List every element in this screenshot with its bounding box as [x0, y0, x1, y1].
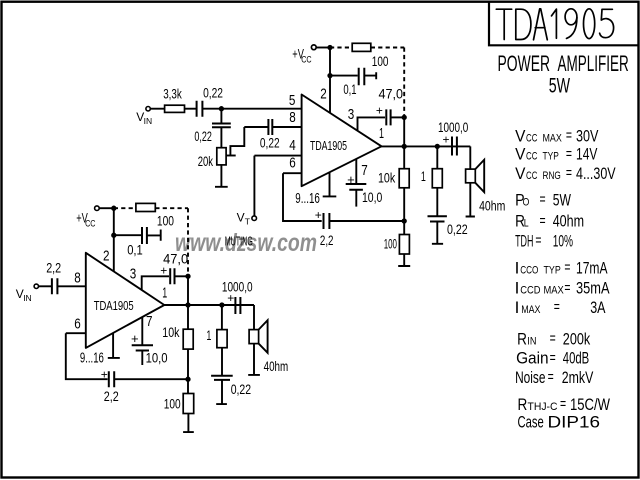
svg-text:+: + [443, 133, 450, 147]
wire 10k to 100 [403, 188, 405, 235]
svg-text:L: L [524, 218, 529, 230]
svg-text:2: 2 [103, 247, 110, 264]
capacitor 0,1 (upper) [359, 68, 365, 86]
svg-text:1: 1 [162, 285, 167, 302]
wire output to 1ohm (lower) [221, 305, 223, 330]
capacitor 2,2 feedback (lower) [109, 371, 114, 387]
svg-text:100: 100 [384, 237, 397, 252]
ground pins 9...16 (upper) [323, 172, 337, 196]
svg-text:THJ-C: THJ-C [528, 401, 558, 413]
spec Vcc TYP = 14V [515, 145, 598, 164]
svg-text:MAX: MAX [521, 304, 541, 316]
svg-text:=: = [564, 259, 570, 276]
svg-text:3A: 3A [590, 298, 606, 317]
capacitor 0,22 shunt (upper) [212, 124, 231, 128]
svg-text:=: = [566, 127, 572, 144]
svg-text:AMPLIFIER: AMPLIFIER [558, 51, 629, 76]
potentiometer 20k [217, 148, 226, 165]
wire node down to output [403, 117, 405, 146]
capacitor 10,0 (lower) [132, 345, 153, 350]
wire 3,3k to C 0,22 [185, 108, 197, 110]
svg-text:2,2: 2,2 [46, 261, 61, 276]
svg-text:+: + [160, 263, 167, 277]
svg-text:CC: CC [526, 132, 537, 144]
wire speaker ground (lower) [248, 344, 260, 375]
node 0,1 tap (lower) [112, 234, 115, 237]
svg-text:0,1: 0,1 [127, 242, 143, 257]
svg-text:40hm: 40hm [479, 198, 505, 213]
svg-text:0,22: 0,22 [260, 136, 280, 151]
svg-text:MUTING: MUTING [225, 233, 253, 248]
node output/1ohm (upper) [436, 145, 439, 148]
ground pins 9...16 (lower) [108, 333, 120, 358]
wire 10,0 end [355, 190, 357, 207]
capacitor 1000,0 output (lower) [235, 297, 240, 314]
svg-text:2: 2 [320, 85, 327, 102]
capacitor 47,0 (upper) [386, 109, 390, 125]
resistor 100 Vcc (upper) [352, 43, 371, 51]
wire to 0,1 cap (lower) [114, 234, 142, 236]
svg-text:6: 6 [74, 316, 81, 333]
svg-text:V: V [515, 145, 526, 164]
capacitor 47,0 (lower) [170, 268, 174, 284]
spec Imax = 3A [515, 298, 606, 317]
wire to 0,22 pin8 cap [244, 126, 268, 128]
wire output pin 1 (lower) [164, 304, 254, 306]
wire Vin to 2,2 [39, 285, 52, 287]
subtitle POWER AMPLIFIER 5W [498, 51, 629, 97]
spec Vcc RNG = 4...30V [515, 164, 616, 183]
svg-text:4...30V: 4...30V [576, 164, 616, 183]
svg-text:I: I [515, 258, 520, 277]
svg-text:0,22: 0,22 [231, 382, 251, 397]
svg-text:2,2: 2,2 [104, 389, 119, 404]
spec Noise = 2mkV [515, 368, 594, 387]
svg-text:6: 6 [289, 155, 296, 172]
svg-text:7: 7 [361, 162, 368, 179]
svg-text:10k: 10k [162, 325, 179, 340]
ground under 100 (lower) [183, 414, 194, 433]
svg-text:10,0: 10,0 [362, 190, 382, 205]
wire feedback cap to node (lower) [114, 378, 188, 380]
capacitor 10,0 (upper) [346, 184, 367, 190]
svg-text:9...16: 9...16 [80, 350, 104, 366]
svg-text:IN: IN [527, 335, 536, 347]
wire output to 10k [403, 146, 405, 168]
svg-text:47,0: 47,0 [379, 87, 404, 102]
node feedback/divider (upper) [403, 219, 406, 222]
capacitor 0,22 zobel (lower) [211, 376, 233, 380]
ground under 100 (upper) [398, 254, 410, 266]
wire pin 3 (lower) [142, 276, 169, 290]
svg-text:Case: Case [518, 413, 544, 432]
wire Vcc terminal to node (upper) [316, 47, 330, 49]
svg-text:+: + [101, 368, 108, 382]
ground under pot [215, 165, 228, 187]
svg-text:100: 100 [164, 397, 181, 412]
spec Gain = 40dB [516, 349, 589, 368]
wire Vin terminal (upper) [146, 107, 150, 111]
op-amp U1 TDA1905 (upper) [302, 95, 382, 187]
spec Case DIP16 [518, 413, 601, 432]
wire pin 2 (lower) [113, 208, 115, 271]
spec Iccd MAX = 35mA [515, 279, 610, 298]
svg-text:DIP16: DIP16 [548, 413, 601, 432]
node Vcc (lower) [112, 207, 115, 210]
wire cap to pot [220, 127, 222, 147]
spec Icco TYP = 17mA [515, 258, 608, 277]
wire Vcc terminal to node [99, 207, 114, 209]
svg-text:200k: 200k [563, 329, 591, 348]
node 47,0/dashed (upper) [403, 116, 406, 119]
title box [489, 3, 638, 46]
svg-text:40hm: 40hm [553, 212, 584, 231]
wire feedback cap to node [329, 220, 404, 222]
svg-text:=: = [566, 165, 572, 182]
terminal Vin (lower) [34, 284, 38, 288]
svg-text:+: + [376, 104, 383, 118]
node 47,0/dashed (lower) [186, 275, 189, 278]
svg-text:TDH: TDH [515, 232, 533, 251]
wire 0,22 end (lower) [216, 380, 227, 404]
node Vcc (upper) [328, 46, 331, 49]
resistor 100 Vcc (lower) [136, 203, 155, 211]
capacitor 0,1 (lower) [142, 227, 147, 244]
svg-text:V: V [515, 164, 526, 183]
svg-text:5W: 5W [549, 75, 570, 98]
resistor 1 (upper) [432, 169, 442, 188]
capacitor 2,2 input (lower) [52, 278, 58, 294]
wire pin 7 (lower) [141, 317, 143, 345]
svg-text:14V: 14V [576, 145, 598, 164]
resistor 100 divider (lower) [183, 394, 194, 414]
wire C to pin 5 [202, 108, 301, 110]
capacitor 1000,0 output (upper) [452, 137, 457, 156]
svg-text:V: V [515, 126, 526, 145]
wire 0,1 right lead (lower) [147, 230, 161, 241]
wire 1ohm to 0,22 (lower) [221, 348, 223, 376]
svg-text:10k: 10k [378, 171, 395, 186]
wire output to 10k (lower) [187, 305, 189, 329]
capacitor 0,22 to pin 8 [268, 119, 272, 135]
wire cap to pin 8 [272, 126, 301, 128]
wire pin6 down to feedback (lower) [66, 333, 108, 379]
svg-text:IN: IN [144, 116, 153, 126]
svg-text:Gain: Gain [516, 349, 549, 368]
svg-text:TDA1905: TDA1905 [310, 138, 347, 153]
svg-text:1: 1 [421, 168, 426, 184]
svg-text:=: = [550, 330, 556, 347]
svg-text:20k: 20k [198, 154, 213, 169]
resistor 10k (lower) [183, 329, 193, 349]
svg-text:IN: IN [23, 293, 32, 303]
svg-text:O: O [523, 196, 530, 208]
svg-text:+: + [131, 331, 139, 346]
wire node down to output (lower) [187, 276, 189, 305]
dashed wire 100 to corner and down (lower) [155, 208, 188, 276]
svg-text:R: R [518, 395, 528, 414]
wire 0,1 right lead [364, 72, 376, 79]
wire junction down [220, 109, 222, 123]
wire cap to speaker [469, 146, 471, 169]
svg-text:I: I [515, 279, 520, 298]
wire 1ohm to 0,22 [436, 188, 438, 217]
capacitor 0,22 zobel (upper) [428, 216, 447, 221]
svg-text:CCO: CCO [520, 264, 539, 276]
wire output to 1ohm [436, 146, 438, 168]
svg-text:V: V [237, 211, 245, 225]
wire cap to speaker (lower) [253, 305, 255, 330]
svg-text:3: 3 [348, 106, 355, 123]
svg-text:4: 4 [289, 137, 296, 154]
svg-text:0,1: 0,1 [343, 82, 356, 97]
svg-text:3: 3 [130, 266, 137, 283]
svg-text:CCD: CCD [520, 285, 540, 297]
wire 47,0 to node (lower) [175, 275, 189, 277]
svg-text:R: R [517, 329, 527, 348]
svg-text:100: 100 [157, 214, 174, 229]
input terminal Vin (upper) [311, 45, 316, 50]
svg-text:RNG: RNG [543, 170, 561, 182]
svg-text:=: = [566, 145, 572, 162]
wire 0,22 end (upper) [432, 222, 443, 244]
svg-text:1: 1 [206, 327, 211, 343]
svg-text:TDA1905: TDA1905 [94, 298, 134, 313]
wire 10,0 end (lower) [141, 351, 143, 366]
dashed wire 100 to corner and down [371, 48, 404, 118]
svg-text:CC: CC [526, 170, 537, 182]
svg-text:1: 1 [379, 125, 384, 142]
svg-text:=: = [564, 279, 570, 296]
svg-text:8: 8 [289, 109, 296, 126]
svg-text:CC: CC [526, 151, 537, 163]
node feedback/divider (lower) [186, 378, 189, 381]
node output/1ohm (lower) [220, 303, 223, 306]
svg-text:40dB: 40dB [563, 349, 589, 368]
terminal Vt [252, 216, 257, 221]
wire to 0,1 cap [330, 75, 358, 77]
wire pin 4 [254, 155, 301, 157]
svg-text:TYP: TYP [544, 264, 561, 276]
svg-text:CC: CC [301, 55, 312, 65]
svg-text:0,22: 0,22 [203, 85, 223, 100]
svg-text:+: + [315, 208, 322, 222]
resistor 100 divider (upper) [399, 235, 409, 255]
node junction input (upper) [220, 107, 223, 110]
node output/10k (upper) [403, 145, 406, 148]
capacitor 2,2 feedback (upper) [324, 213, 330, 229]
terminal Vcc (lower) [95, 206, 100, 211]
wire pot wiper to pin8 cap [230, 127, 244, 156]
spec Vcc MAX = 30V [515, 126, 599, 145]
svg-text:10,0: 10,0 [146, 350, 168, 365]
svg-text:TYP: TYP [543, 151, 559, 163]
wire 10k to 100 (lower) [187, 349, 189, 393]
svg-text:40hm: 40hm [264, 359, 289, 374]
svg-text:15C/W: 15C/W [570, 395, 610, 414]
svg-text:0,22: 0,22 [194, 129, 212, 144]
wire pin 3 [358, 117, 386, 130]
op-amp U2 TDA1905 (lower) [86, 253, 165, 348]
svg-text:Noise: Noise [515, 368, 545, 387]
wire 47,0 to node [391, 116, 405, 118]
dashed wire Vcc to 100 (lower) [114, 207, 136, 209]
wire pin4 to Vt terminal [253, 156, 255, 216]
svg-text:9...16: 9...16 [295, 191, 320, 207]
spec Rthj-c = 15C/W [518, 395, 611, 414]
svg-text:5W: 5W [553, 190, 571, 209]
svg-text:+: + [227, 291, 234, 305]
title TDA1905 [496, 9, 613, 40]
wire pin 6 [283, 172, 302, 174]
speaker (lower) [249, 330, 259, 344]
svg-text:MAX: MAX [543, 132, 563, 144]
svg-text:=: = [548, 369, 554, 386]
svg-text:35mA: 35mA [576, 279, 610, 298]
svg-text:100: 100 [372, 54, 389, 69]
svg-text:30V: 30V [576, 126, 599, 145]
resistor 10k (upper) [399, 169, 409, 188]
svg-text:7: 7 [146, 313, 153, 330]
svg-text:8: 8 [74, 270, 81, 287]
svg-text:=: = [550, 349, 556, 366]
svg-text:3,3k: 3,3k [163, 87, 182, 102]
wire pin 6 (lower) [66, 332, 86, 334]
svg-text:10%: 10% [553, 232, 573, 251]
svg-text:CC: CC [85, 219, 96, 229]
svg-text:=: = [554, 299, 560, 316]
wire pin 2 from Vcc [329, 48, 331, 113]
svg-text:0,22: 0,22 [447, 222, 468, 237]
node output/10k (lower) [186, 303, 189, 306]
wire pin6 down to feedback [283, 173, 322, 221]
wire pin 7 [355, 159, 357, 184]
dashed wire Vcc to 100 resistor [330, 47, 352, 49]
svg-text:MAX: MAX [544, 285, 565, 297]
resistor 1 (lower) [217, 330, 227, 348]
capacitor 0,22 series input (upper) [197, 101, 203, 117]
svg-text:=: = [535, 232, 541, 249]
svg-text:T: T [245, 217, 250, 227]
spec Rin = 200k [517, 329, 590, 348]
svg-text:2,2: 2,2 [320, 233, 334, 248]
resistor 3,3k [165, 105, 185, 112]
speaker (upper) [466, 169, 476, 183]
spec RL = 40hm [515, 212, 584, 231]
wire output pin 1 [382, 145, 471, 147]
svg-text:2mkV: 2mkV [562, 368, 594, 387]
spec TDH = 10% [515, 232, 573, 251]
svg-text:POWER: POWER [498, 51, 551, 76]
svg-text:=: = [560, 396, 566, 413]
svg-text:17mA: 17mA [576, 258, 608, 277]
svg-text:I: I [515, 298, 520, 317]
node 0,1 tap (upper) [328, 74, 331, 77]
wire 2,2 to pin 8 [57, 285, 85, 287]
wire speaker to ground [466, 183, 475, 217]
svg-text:5: 5 [289, 92, 296, 109]
svg-text:=: = [540, 191, 546, 208]
svg-text:+: + [347, 172, 355, 187]
spec Po = 5W [515, 190, 571, 209]
svg-text:=: = [540, 212, 546, 229]
